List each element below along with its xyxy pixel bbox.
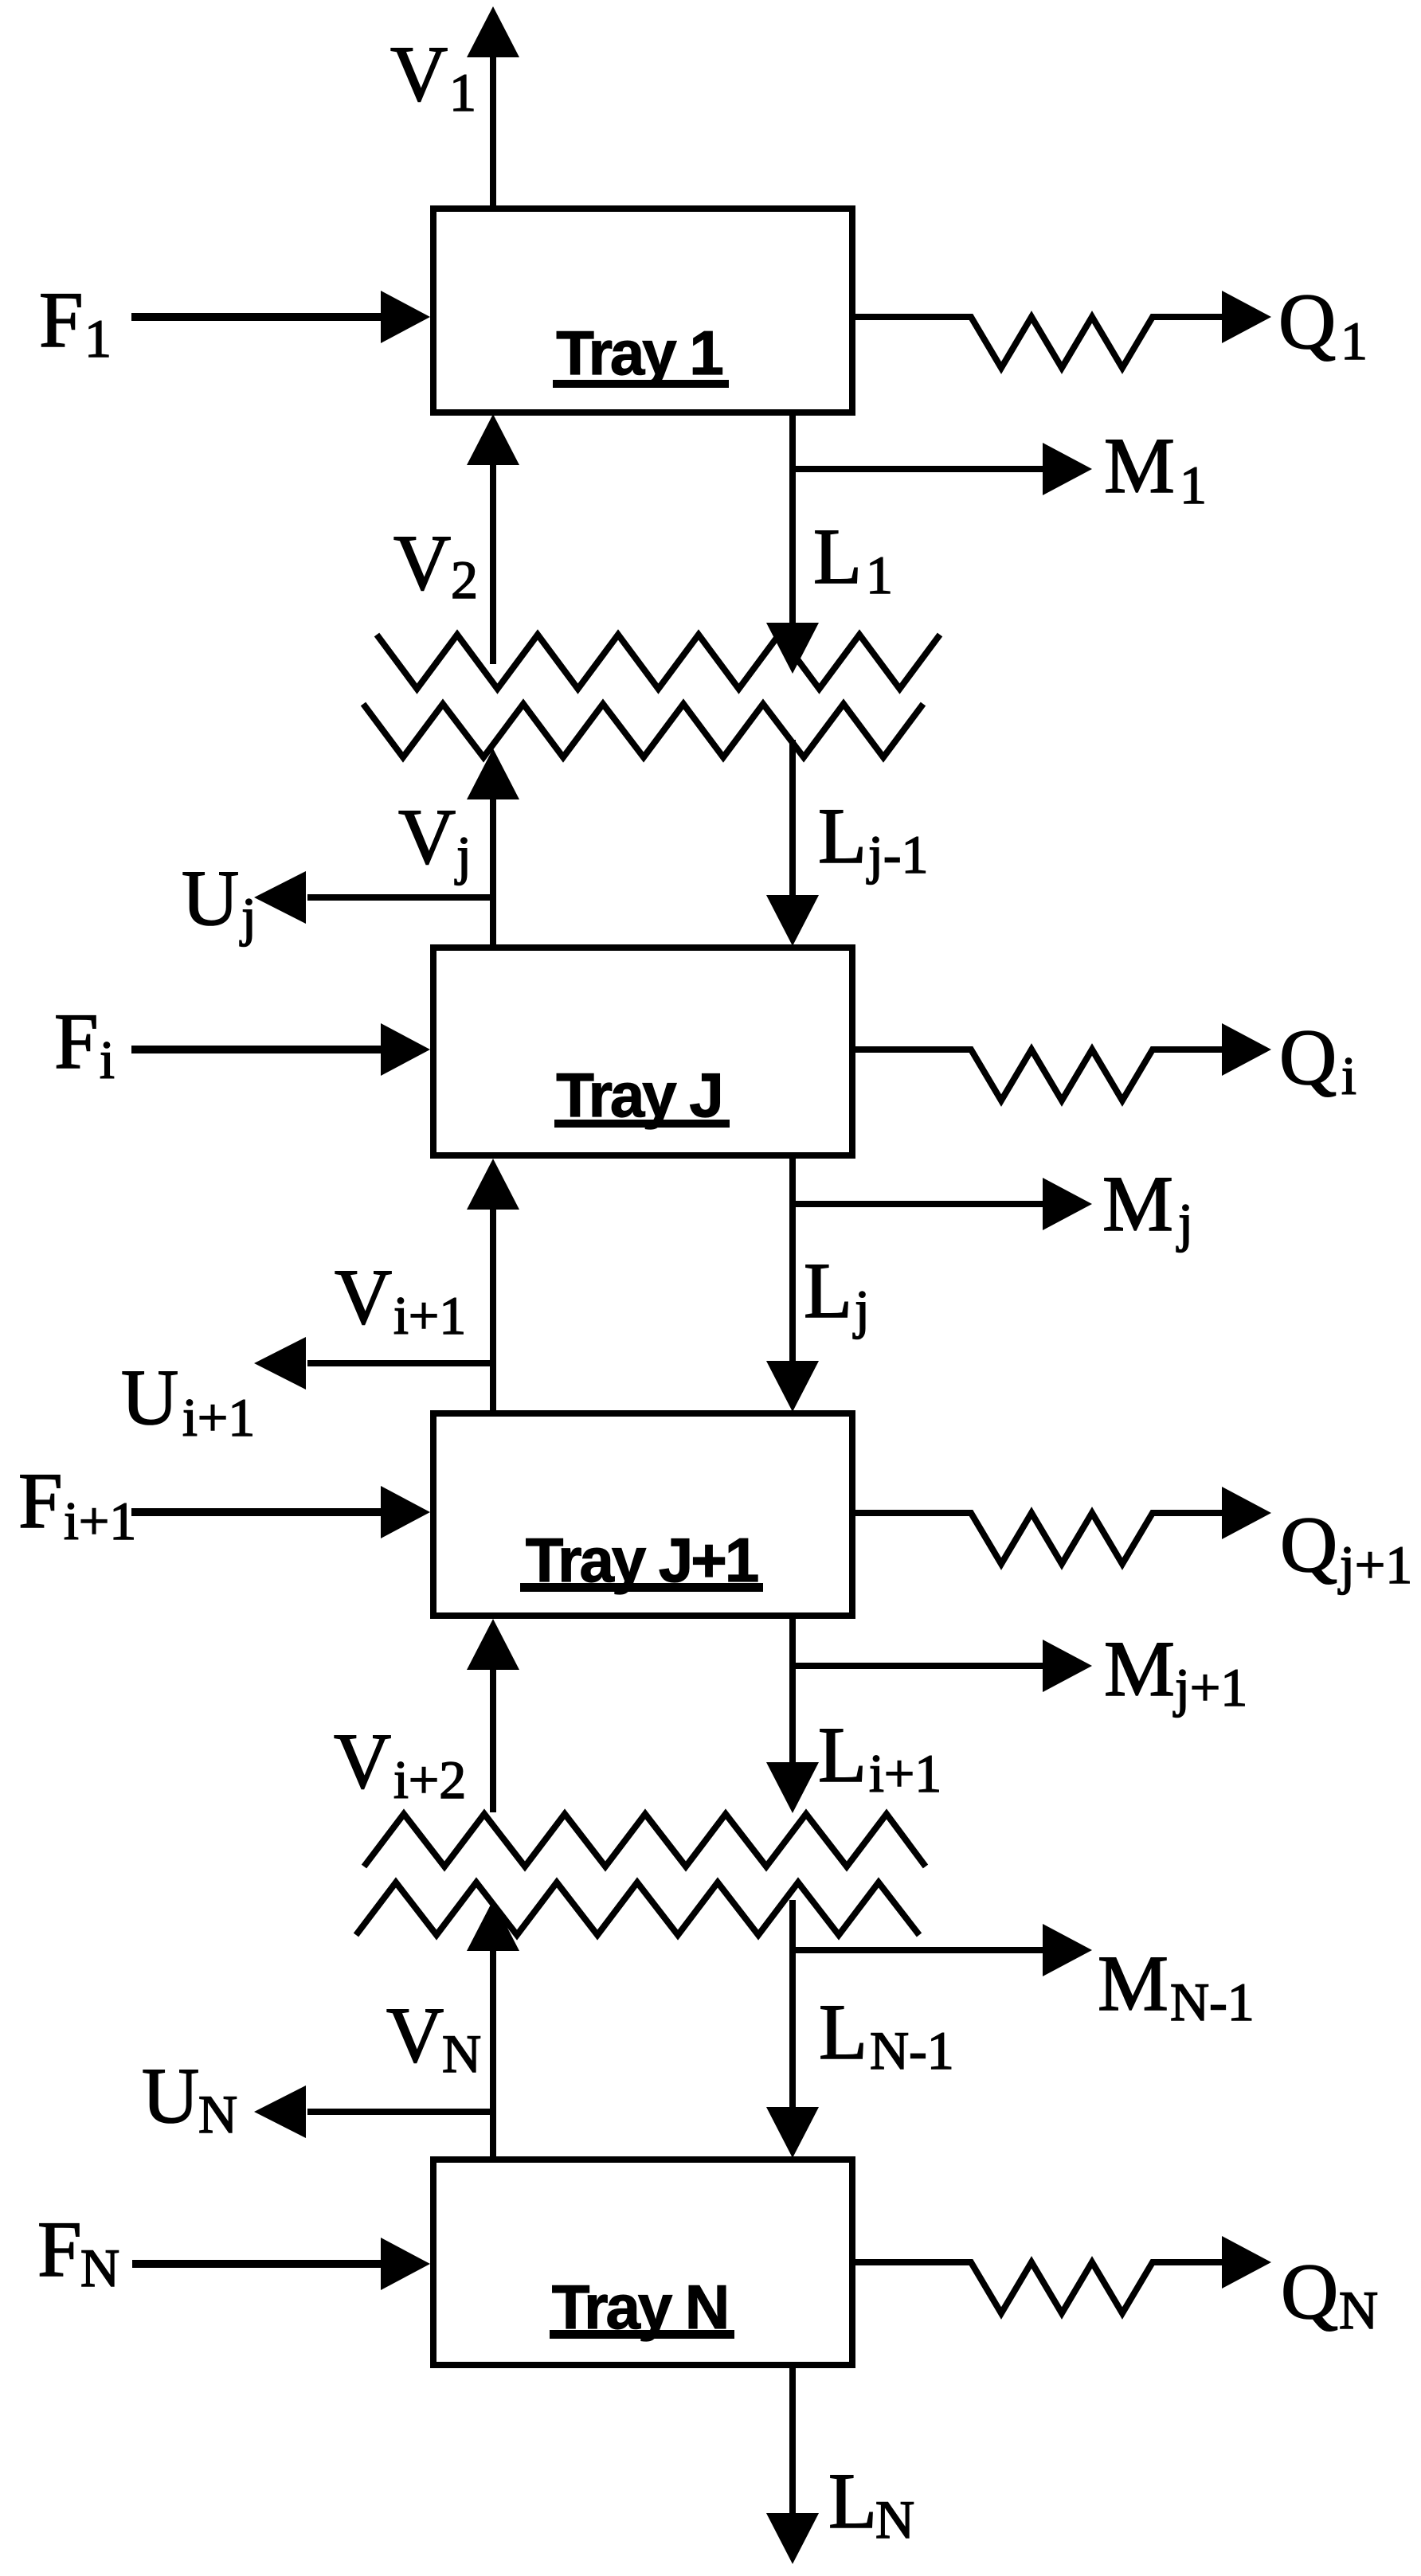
svg-text:j+1: j+1 [1173, 1657, 1247, 1718]
svg-text:F: F [37, 2205, 82, 2293]
arrowhead Lj down into Tray J+1 [766, 1361, 819, 1412]
wire UN side vapor draw [307, 2109, 493, 2115]
svg-text:Tray J: Tray J [556, 1060, 722, 1130]
svg-text:U: U [142, 2051, 199, 2140]
resistor Q1 heat exchange zigzag [852, 317, 1223, 368]
svg-text:V: V [386, 1991, 444, 2079]
svg-text:F: F [39, 276, 84, 364]
wire Li+1 liquid down from Tray J+1 [789, 1616, 796, 1765]
arrowhead FN right [381, 2238, 430, 2290]
wire Vi+2 vapor up into Tray J+1 [490, 1668, 496, 1812]
svg-text:j: j [1176, 1192, 1193, 1253]
svg-text:N: N [1339, 2280, 1378, 2340]
arrowhead Mj+1 right [1043, 1640, 1092, 1692]
resistor QN heat exchange zigzag [852, 2262, 1223, 2313]
arrowhead LN down bottoms [766, 2513, 819, 2564]
wire V2 vapor up into Tray 1 [490, 463, 496, 664]
svg-text:L: L [804, 1246, 852, 1335]
svg-text:F: F [54, 997, 99, 1085]
underline Tray 1 [553, 380, 729, 388]
arrowhead Vi+2 up into Tray J+1 bottom [467, 1619, 519, 1670]
wire Uj side vapor draw [307, 894, 493, 901]
tray box Tray N [433, 2160, 852, 2365]
wire F1 feed [131, 313, 384, 321]
arrowhead Qj+1 right [1222, 1487, 1271, 1539]
svg-text:M: M [1102, 1159, 1173, 1248]
wire Fi+1 feed [131, 1508, 384, 1516]
arrowhead Fi+1 right [381, 1486, 430, 1538]
arrowhead Vi+1 up into Tray J bottom [467, 1159, 519, 1210]
wire L1 liquid down [789, 412, 796, 626]
svg-text:Tray 1: Tray 1 [556, 318, 722, 388]
arrowhead L1 down [766, 623, 819, 674]
svg-text:2: 2 [451, 549, 478, 610]
wire Mj+1 side draw [793, 1663, 1044, 1669]
svg-text:j: j [455, 825, 472, 885]
arrowhead Fi right [381, 1023, 430, 1076]
arrowhead Vj up under tear [467, 749, 519, 799]
svg-text:j: j [853, 1279, 870, 1339]
svg-text:V: V [335, 1253, 392, 1341]
arrowhead M1 right [1043, 443, 1092, 495]
arrowhead VN up under tear [467, 1900, 519, 1951]
svg-text:L: L [828, 2457, 877, 2545]
svg-text:U: U [182, 854, 239, 942]
svg-text:N: N [80, 2238, 119, 2298]
tear break zigzag row 4 [356, 1882, 919, 1935]
svg-text:V: V [398, 792, 456, 881]
wire V1 vapor out top [490, 56, 496, 209]
svg-text:Q: Q [1281, 2247, 1338, 2336]
svg-text:Q: Q [1280, 1500, 1337, 1589]
svg-text:Q: Q [1278, 277, 1336, 365]
svg-text:M: M [1098, 1939, 1169, 2027]
wire Lj-1 liquid into Tray J [789, 740, 796, 898]
arrowhead Lj-1 down into Tray J [766, 895, 819, 946]
svg-text:V: V [390, 29, 448, 118]
svg-text:i+1: i+1 [64, 1491, 136, 1551]
svg-text:L: L [819, 1988, 867, 2076]
tray box Tray 1 [433, 209, 852, 412]
arrowhead Ui+1 left [254, 1337, 306, 1390]
underline Tray J [554, 1120, 730, 1128]
wire FN feed [132, 2260, 384, 2268]
svg-text:i+1: i+1 [869, 1743, 941, 1804]
svg-text:j-1: j-1 [867, 824, 929, 885]
svg-text:L: L [813, 512, 862, 600]
wire Lj liquid down from Tray J [789, 1155, 796, 1364]
wire Fi feed [131, 1046, 384, 1053]
tear break zigzag row 1 [377, 635, 940, 689]
arrowhead Qi right [1222, 1023, 1271, 1076]
svg-text:U: U [121, 1353, 178, 1441]
tray box Tray J+1 [433, 1413, 852, 1616]
wire LN-1 liquid into Tray N [789, 1900, 796, 2110]
svg-text:F: F [18, 1456, 63, 1545]
svg-text:1: 1 [449, 62, 476, 123]
arrowhead V1 up [467, 6, 519, 57]
arrowhead LN-1 down into Tray N [766, 2107, 819, 2158]
resistor Qj+1 heat exchange zigzag [852, 1513, 1223, 1564]
svg-text:i+1: i+1 [393, 1285, 466, 1346]
arrowhead UN left [254, 2085, 306, 2138]
svg-text:N-1: N-1 [870, 2020, 954, 2081]
wire Vj vapor up from Tray J [490, 798, 496, 948]
svg-text:N: N [875, 2489, 914, 2550]
wire MN-1 side draw [793, 1947, 1044, 1953]
wire Vi+1 vapor up into Tray J [490, 1208, 496, 1413]
svg-text:Q: Q [1279, 1013, 1337, 1101]
wire Ui+1 side vapor draw [307, 1360, 493, 1366]
svg-text:L: L [818, 1710, 867, 1799]
arrowhead Q1 right [1222, 291, 1271, 343]
arrowhead Li+1 down into tear [766, 1762, 819, 1813]
svg-text:1: 1 [84, 308, 112, 369]
svg-text:V: V [393, 518, 451, 607]
svg-text:L: L [818, 792, 867, 880]
arrowhead F1 right [381, 291, 430, 343]
svg-text:1: 1 [866, 545, 893, 605]
arrowhead Uj left [254, 871, 306, 924]
svg-text:i+2: i+2 [393, 1749, 466, 1810]
svg-text:N: N [442, 2023, 481, 2084]
wire LN bottoms out [789, 2365, 796, 2515]
wire VN vapor up toward Tray J+1 [490, 1949, 496, 2160]
tear break zigzag row 3 [364, 1814, 926, 1867]
wire Mj side draw [793, 1201, 1044, 1207]
svg-text:1: 1 [1180, 455, 1207, 515]
tear break zigzag row 2 [363, 704, 923, 757]
arrowhead QN right [1222, 2236, 1271, 2289]
svg-text:V: V [334, 1717, 391, 1805]
resistor Qi heat exchange zigzag [852, 1050, 1223, 1100]
wire M1 side draw [793, 466, 1044, 472]
underline Tray N [550, 2330, 734, 2339]
svg-text:i+1: i+1 [182, 1387, 255, 1448]
underline Tray J+1 [520, 1583, 763, 1592]
svg-text:1: 1 [1341, 311, 1368, 371]
svg-text:M: M [1104, 1624, 1175, 1713]
arrowhead V2 up into Tray 1 [467, 414, 519, 465]
arrowhead Mj right [1043, 1178, 1092, 1230]
svg-text:j+1: j+1 [1338, 1534, 1412, 1595]
svg-text:j: j [240, 886, 256, 947]
tray box Tray J [433, 948, 852, 1155]
arrowhead MN-1 right [1043, 1924, 1092, 1976]
svg-text:M: M [1104, 421, 1175, 510]
svg-text:N: N [198, 2084, 237, 2144]
svg-text:i: i [100, 1030, 115, 1090]
svg-text:i: i [1341, 1046, 1356, 1106]
svg-text:N-1: N-1 [1170, 1972, 1255, 2032]
